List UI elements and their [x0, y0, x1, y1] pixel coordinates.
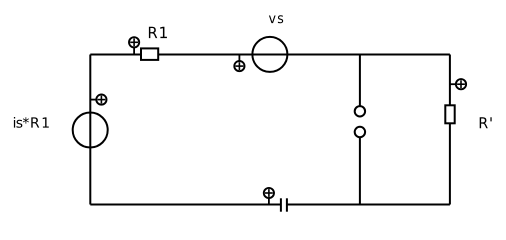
wire bottom right	[287, 204, 450, 206]
label is*R1	[14, 117, 49, 128]
wire left	[89, 55, 91, 205]
capacitor right plate	[286, 198, 288, 211]
wire bottom left	[90, 204, 281, 206]
polarity marker at R'	[450, 79, 466, 89]
source vs	[252, 37, 287, 72]
label R'	[480, 117, 492, 128]
wire middle branch lower	[359, 138, 361, 205]
wire right	[449, 55, 451, 205]
port terminal upper	[355, 106, 365, 116]
polarity marker at R1	[129, 37, 139, 54]
wire middle branch upper	[359, 55, 361, 106]
port terminal lower	[355, 127, 365, 137]
resistor R'	[445, 105, 454, 123]
label vs	[269, 15, 283, 23]
source is*R1	[73, 113, 108, 148]
capacitor left plate	[280, 198, 282, 211]
polarity marker at is*R1	[90, 95, 106, 105]
resistor R1	[141, 48, 158, 60]
polarity marker at capacitor	[264, 188, 274, 205]
label R1	[149, 27, 167, 38]
wire top	[90, 54, 450, 56]
polarity marker at vs	[234, 55, 244, 72]
